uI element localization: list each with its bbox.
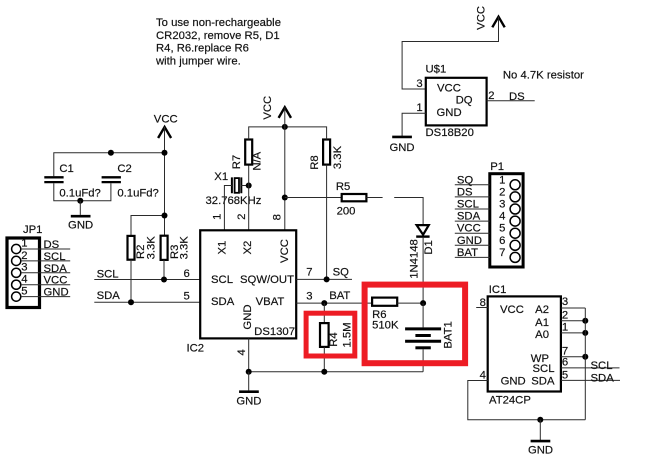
svg-text:1: 1: [212, 214, 224, 220]
svg-text:1.5M: 1.5M: [342, 322, 354, 347]
svg-text:SCL: SCL: [591, 360, 613, 372]
wire VCC left vertical: [164, 127, 166, 236]
wire IC1 pin4 to ground rail: [468, 381, 586, 420]
svg-text:IC1: IC1: [489, 284, 507, 296]
node R4 top: [321, 300, 327, 306]
svg-text:VCC: VCC: [44, 275, 68, 287]
svg-text:8: 8: [271, 214, 283, 220]
svg-text:N/A: N/A: [251, 151, 263, 170]
wire D1 to battery junction: [422, 238, 424, 303]
svg-text:1: 1: [21, 238, 27, 250]
wire R3 bottom to SCL: [163, 260, 165, 280]
svg-text:GND: GND: [44, 287, 69, 299]
wire R2 jog to VCC: [131, 216, 165, 236]
svg-text:3.3K: 3.3K: [145, 236, 157, 260]
svg-text:6: 6: [184, 268, 190, 280]
svg-text:JP1: JP1: [23, 224, 42, 236]
svg-text:200: 200: [337, 205, 356, 217]
svg-text:SCL: SCL: [44, 251, 66, 263]
svg-text:A0: A0: [535, 329, 549, 341]
svg-text:U$1: U$1: [426, 63, 447, 75]
wire R5 right segment: [366, 197, 382, 199]
wire VCC arrow to IC2 pin8: [284, 107, 286, 230]
power VCC (top right, rotated): [475, 6, 504, 30]
node SDA/R2: [128, 299, 134, 305]
wire R6 right to D1/BAT junction: [397, 302, 423, 304]
resistor R7: [231, 140, 263, 171]
svg-text:IC2: IC2: [187, 343, 205, 355]
wire P1 pin1 stub: [455, 184, 490, 186]
svg-text:D1: D1: [423, 240, 435, 254]
svg-text:To use non-rechargeable: To use non-rechargeable: [156, 17, 281, 29]
node R6/D1/BAT1: [420, 300, 426, 306]
svg-text:6: 6: [562, 357, 568, 369]
svg-text:BAT: BAT: [329, 290, 350, 302]
node A1 tie: [582, 318, 588, 324]
wire capacitor top rail: [54, 153, 165, 177]
wire R7 bottom to X2 junction: [248, 165, 250, 186]
resistor R2: [128, 236, 158, 260]
capacitor C1: [44, 163, 101, 199]
svg-text:SDA: SDA: [457, 211, 481, 223]
node IC1 GND junction: [537, 417, 543, 423]
svg-text:SDA: SDA: [97, 290, 121, 302]
node WP tie: [582, 354, 588, 360]
wire IC2 pin4 down: [248, 338, 250, 371]
svg-text:VBAT: VBAT: [256, 296, 285, 308]
wire SDA into IC2 pin5: [94, 301, 200, 303]
svg-text:510K: 510K: [372, 320, 399, 332]
node cap GND junction: [77, 198, 83, 204]
svg-text:5: 5: [562, 369, 568, 381]
svg-text:A1: A1: [535, 317, 549, 329]
svg-text:5: 5: [184, 291, 190, 303]
svg-text:3: 3: [499, 199, 505, 211]
wire X1 right lead: [241, 185, 248, 187]
svg-text:GND: GND: [437, 107, 462, 119]
svg-text:DS1307: DS1307: [254, 326, 295, 338]
capacitor C2: [102, 163, 159, 199]
svg-text:3.3K: 3.3K: [332, 145, 344, 169]
connector JP1: [7, 224, 42, 307]
svg-text:3: 3: [21, 262, 27, 274]
svg-text:No 4.7K resistor: No 4.7K resistor: [503, 69, 584, 81]
svg-text:4: 4: [236, 349, 248, 355]
resistor R3: [161, 236, 191, 260]
svg-text:3: 3: [562, 296, 568, 308]
IC2 DS1307: [187, 230, 297, 354]
svg-text:with jumper wire.: with jumper wire.: [155, 55, 241, 67]
wire JP1 pin1 DS: [21, 248, 70, 250]
resistor R6: [372, 298, 399, 332]
wire P1 pin3 stub: [455, 208, 490, 210]
svg-text:1N4148: 1N4148: [408, 239, 420, 279]
svg-text:R4, R6.replace R6: R4, R6.replace R6: [156, 43, 249, 55]
svg-text:SCL: SCL: [457, 199, 479, 211]
red highlight box around R6/BAT1: [365, 285, 466, 364]
wire P1 pin2 stub: [455, 196, 490, 198]
svg-text:VCC: VCC: [457, 223, 481, 235]
svg-text:7: 7: [499, 247, 505, 259]
ground (IC1): [528, 420, 553, 457]
net labels P1: [457, 174, 482, 259]
wire X1 left lead to IC2 pin1: [224, 186, 232, 231]
svg-text:1: 1: [562, 321, 568, 333]
node R5 branch: [282, 195, 288, 201]
wire JP1 pin4 VCC: [21, 284, 70, 286]
svg-text:3: 3: [416, 78, 422, 90]
svg-text:1: 1: [416, 102, 422, 114]
wire IC1 pin6 SCL: [561, 367, 620, 369]
node SCL/R3: [161, 277, 167, 283]
svg-text:VCC: VCC: [279, 239, 291, 263]
wire branch to R5: [285, 197, 342, 199]
svg-text:4: 4: [480, 369, 486, 381]
node R4 bottom: [321, 369, 327, 375]
wire to D1 top: [394, 198, 423, 226]
svg-text:VCC: VCC: [500, 304, 524, 316]
svg-text:4: 4: [21, 274, 27, 286]
IC U$1 DS18B20: [426, 63, 487, 139]
node A0 tie: [582, 330, 588, 336]
svg-text:VCC: VCC: [437, 82, 461, 94]
svg-text:X1: X1: [217, 241, 229, 255]
svg-text:SDA: SDA: [211, 296, 235, 308]
wire P1 pin7 stub: [455, 256, 490, 258]
wire P1 pin4 stub: [455, 220, 490, 222]
svg-text:2: 2: [236, 214, 248, 220]
wire top rail R7-R8: [249, 127, 327, 140]
wire JP1 pin5 GND: [21, 296, 70, 298]
svg-text:R5: R5: [336, 181, 350, 193]
svg-text:DS18B20: DS18B20: [426, 127, 474, 139]
svg-text:CR2032, remove R5, D1: CR2032, remove R5, D1: [156, 30, 280, 42]
svg-text:A2: A2: [535, 304, 549, 316]
wire R8 bottom to SQ line: [326, 165, 328, 280]
svg-text:SDA: SDA: [44, 263, 68, 275]
svg-text:SQW/OUT: SQW/OUT: [240, 274, 294, 286]
resistor R4: [320, 322, 354, 347]
svg-text:3: 3: [306, 291, 312, 303]
net label SDA + pin 5: [97, 290, 190, 302]
ground (capacitors): [68, 201, 93, 232]
svg-text:2: 2: [488, 90, 494, 102]
ground (IC2): [236, 372, 261, 408]
svg-text:GND: GND: [242, 304, 254, 329]
wire P1 pin5 stub: [455, 232, 490, 234]
wire IC1 pin5 SDA: [561, 379, 620, 381]
wire U$1 pin2 DQ: [487, 100, 535, 102]
svg-text:2: 2: [562, 310, 568, 322]
wire JP1 pin2 SCL: [21, 260, 70, 262]
svg-text:0.1uFd?: 0.1uFd?: [59, 187, 100, 199]
node C2 top: [108, 150, 114, 156]
wire IC2 pin3 VBAT to R6: [296, 302, 372, 304]
node IC2 GND junction: [246, 369, 252, 375]
svg-text:SCL: SCL: [97, 269, 119, 281]
svg-text:SCL: SCL: [211, 274, 233, 286]
wire JP1 pin3 SDA: [21, 272, 70, 274]
svg-text:SDA: SDA: [531, 375, 555, 387]
wire VCC to U$1 pin3: [402, 17, 498, 89]
wire U$1 pin1 to GND: [402, 113, 426, 136]
svg-text:DS: DS: [44, 239, 60, 251]
svg-text:5: 5: [499, 223, 505, 235]
svg-text:SCL: SCL: [533, 363, 555, 375]
red highlight box around R4: [306, 313, 355, 356]
wire IC1 pin1 A0 stub: [561, 332, 585, 334]
connector P1: [490, 161, 523, 267]
wire SCL into IC2 pin6: [94, 279, 200, 281]
svg-text:C2: C2: [117, 163, 131, 175]
wire battery top lead: [422, 303, 424, 327]
node R2 jog: [162, 213, 168, 219]
wire battery bottom lead: [422, 349, 424, 372]
node X2/R7: [246, 183, 252, 189]
svg-text:6: 6: [499, 235, 505, 247]
wire R4 top lead: [323, 303, 325, 323]
wire X2 junction to IC2 pin2: [248, 186, 250, 231]
svg-text:SDA: SDA: [591, 373, 615, 385]
svg-text:GND: GND: [457, 235, 482, 247]
svg-text:GND: GND: [501, 375, 526, 387]
svg-text:32.768KHz: 32.768KHz: [206, 195, 262, 207]
wire capacitor bottom rail: [54, 183, 111, 201]
wire IC1 pin8 stub: [476, 307, 488, 309]
svg-text:GND: GND: [236, 395, 261, 407]
svg-text:VCC: VCC: [475, 6, 487, 30]
IC1 AT24CP: [488, 284, 561, 407]
svg-text:GND: GND: [528, 444, 553, 455]
svg-text:P1: P1: [490, 161, 504, 173]
svg-text:DS: DS: [457, 186, 473, 198]
svg-text:2: 2: [499, 186, 505, 198]
net labels JP1: [44, 239, 69, 299]
svg-text:DQ: DQ: [456, 94, 473, 106]
svg-text:DS: DS: [509, 91, 525, 103]
power VCC (left): [154, 113, 178, 138]
svg-text:R8: R8: [309, 155, 321, 169]
svg-text:GND: GND: [389, 142, 414, 154]
svg-text:X2: X2: [242, 241, 254, 255]
svg-text:1: 1: [499, 174, 505, 186]
svg-text:BAT: BAT: [457, 247, 478, 259]
svg-text:2: 2: [21, 250, 27, 262]
svg-text:3.3K: 3.3K: [178, 236, 190, 260]
battery BAT1: [405, 321, 454, 348]
crystal X1: [206, 171, 262, 207]
wire R2 bottom to SDA: [130, 260, 132, 303]
resistor R8: [309, 140, 344, 170]
node VCC/cap rail: [162, 150, 168, 156]
wire ground rail under IC2: [249, 371, 423, 373]
svg-text:7: 7: [306, 266, 312, 278]
svg-text:R7: R7: [231, 155, 243, 169]
resistor R5: [336, 181, 367, 217]
svg-text:C1: C1: [59, 163, 73, 175]
diode D1 1N4148: [408, 225, 435, 279]
node VCC top rail: [282, 124, 288, 130]
wire IC1 pin3 A2 stub: [561, 307, 585, 309]
ground (U$1): [389, 137, 414, 154]
svg-text:BAT1: BAT1: [443, 321, 455, 348]
power VCC (above IC2, rotated): [262, 96, 291, 120]
wire P1 pin6 stub: [455, 244, 490, 246]
wire IC2 pin7 SQ: [296, 278, 352, 280]
wire IC1 pin7 WP stub: [561, 356, 585, 358]
svg-text:VCC: VCC: [154, 113, 178, 125]
svg-text:SQ: SQ: [457, 174, 474, 186]
net label SCL + pin 6: [97, 268, 190, 280]
svg-text:AT24CP: AT24CP: [489, 395, 531, 407]
wire IC1 pin2 A1 stub: [561, 320, 585, 322]
svg-text:VCC: VCC: [262, 96, 274, 120]
note text: [155, 17, 281, 67]
wire R4 bottom lead: [323, 347, 325, 372]
svg-text:5: 5: [21, 286, 27, 298]
svg-text:SQ: SQ: [333, 266, 350, 278]
svg-text:4: 4: [499, 211, 505, 223]
wire tie-down vertical: [584, 308, 586, 420]
svg-text:0.1uFd?: 0.1uFd?: [117, 187, 158, 199]
svg-text:R4: R4: [328, 332, 340, 346]
node R8/SQ: [324, 276, 330, 282]
svg-text:GND: GND: [68, 219, 93, 231]
svg-text:X1: X1: [214, 171, 228, 183]
